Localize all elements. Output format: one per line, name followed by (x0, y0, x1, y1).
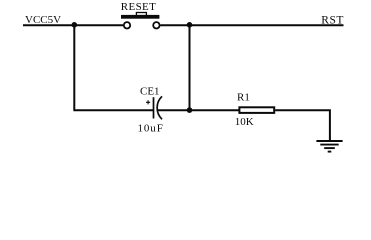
svg-text:10K: 10K (235, 116, 254, 128)
svg-text:VCC5V: VCC5V (25, 14, 61, 26)
capacitor CE1 10uF (electrolytic, + flat plate and curved plate) (138, 86, 164, 135)
svg-text:CE1: CE1 (140, 86, 160, 98)
resistor R1 10K (235, 91, 274, 128)
switch bar (121, 15, 159, 19)
positive flat plate (153, 97, 155, 118)
wire resistor to ground corner (275, 110, 330, 141)
wire capacitor to junction (158, 109, 239, 111)
switch actuator button (136, 13, 146, 16)
resistor body (239, 107, 274, 113)
svg-text:10uF: 10uF (138, 123, 164, 135)
svg-text:R1: R1 (237, 91, 250, 103)
wire top-left segment (23, 24, 123, 26)
polarity + mark (146, 100, 150, 104)
wire vertical middle branch (189, 25, 191, 110)
switch contact right (153, 22, 159, 28)
wire bottom-left segment (73, 109, 153, 111)
curved negative plate (157, 96, 162, 119)
wire vertical left branch (73, 25, 75, 110)
svg-text:RST: RST (321, 15, 344, 27)
ground (316, 141, 342, 152)
switch RESET (push-button) (121, 1, 160, 28)
wire top-right segment (160, 24, 343, 26)
node junction on top rail at x=189.5 (187, 22, 193, 28)
switch contact left (124, 22, 130, 28)
node junction on bottom wire at x=189.5 (187, 107, 193, 113)
node junction on top rail at x=74 (72, 22, 78, 28)
svg-text:RESET: RESET (121, 1, 156, 13)
